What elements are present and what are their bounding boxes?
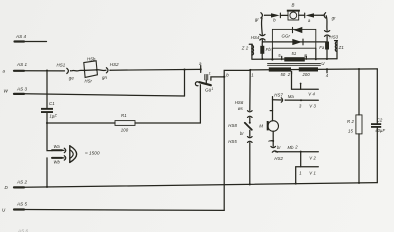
value 1500 (horn winding) xyxy=(85,150,100,155)
value 1uF xyxy=(50,113,58,118)
junction row at Fa column xyxy=(326,68,328,70)
label ge xyxy=(69,75,75,80)
label HS7 xyxy=(274,92,283,97)
svg-text:Fb: Fb xyxy=(266,47,272,52)
label Z1 xyxy=(338,45,345,50)
wire V1 line xyxy=(296,167,319,184)
connector block HSb/HSr (parallelogram) xyxy=(84,61,98,78)
switch GU fixed block xyxy=(204,74,208,80)
junction W riser on AS1 xyxy=(183,69,185,71)
connector arc top left xyxy=(261,13,265,18)
label HSr xyxy=(85,79,93,84)
svg-text:a: a xyxy=(308,18,311,23)
svg-text:1: 1 xyxy=(299,170,301,175)
label HS3 xyxy=(330,34,339,39)
label a (below M) xyxy=(268,138,271,143)
label HSb xyxy=(87,56,96,61)
svg-text:V 3: V 3 xyxy=(309,104,316,109)
label C1 xyxy=(49,101,55,106)
wire left charge column (wavy) xyxy=(261,40,264,59)
wire HS5 down to AS2 xyxy=(249,143,251,185)
junction on V2 line xyxy=(300,151,302,153)
label M xyxy=(259,123,263,128)
value 15 xyxy=(348,129,353,134)
label br (column) xyxy=(240,131,244,136)
node a (left terminal letter) xyxy=(3,69,6,74)
wire tap2 to V4 line xyxy=(292,71,319,89)
label R1 xyxy=(121,113,127,118)
svg-text:br: br xyxy=(277,145,281,150)
wire right charge column top xyxy=(325,16,328,31)
junction Fb column on row 51 xyxy=(261,58,263,60)
switch arm GU xyxy=(199,82,211,85)
label V4 xyxy=(308,91,315,96)
svg-text:HS7: HS7 xyxy=(274,92,283,97)
svg-text:HS1: HS1 xyxy=(57,62,66,67)
junction HS column on AS2 xyxy=(249,183,251,185)
label HS2 xyxy=(110,62,119,67)
wire AS3/W horizontal xyxy=(14,94,185,96)
svg-text:gr: gr xyxy=(332,15,336,20)
connector HS6 xyxy=(248,111,253,118)
motor/horn M xyxy=(267,121,279,132)
svg-text:R1: R1 xyxy=(121,113,127,118)
svg-text:HS8: HS8 xyxy=(228,123,237,128)
svg-text:2: 2 xyxy=(294,145,298,150)
node a tick and label at GU switch xyxy=(200,66,202,70)
capacitor C2 xyxy=(371,123,381,128)
svg-text:AS 3: AS 3 xyxy=(16,87,28,92)
svg-text:15: 15 xyxy=(348,129,353,134)
svg-text:HS6: HS6 xyxy=(235,100,244,105)
label Fb xyxy=(266,47,272,52)
diode D2 (mid, right-pointing) xyxy=(292,39,303,45)
node W (left terminal letter) xyxy=(4,89,9,94)
label 2 (tap) xyxy=(287,72,291,77)
switch HS8 (horn button) xyxy=(245,122,252,130)
svg-text:2: 2 xyxy=(287,72,291,77)
winding 50 xyxy=(269,67,291,71)
pin tick below GU block xyxy=(205,80,207,82)
svg-text:W: W xyxy=(4,89,9,94)
svg-text:Z1: Z1 xyxy=(338,45,345,50)
wire C2 upper xyxy=(376,69,378,123)
label Ma xyxy=(288,94,295,99)
svg-text:HS3: HS3 xyxy=(330,34,339,39)
svg-text:100: 100 xyxy=(121,127,129,132)
junction V column on AS2 xyxy=(295,183,297,185)
wire C1 to R1 junction xyxy=(46,113,48,123)
wire diode a to right arc xyxy=(314,14,324,16)
label V3 xyxy=(309,104,316,109)
winding 51 xyxy=(284,57,305,61)
svg-text:ge: ge xyxy=(69,75,75,80)
junction on plug right edge xyxy=(96,69,98,71)
svg-text:HS4: HS4 xyxy=(251,35,260,40)
label Wb xyxy=(54,160,61,165)
horn (speaker) body xyxy=(70,146,77,163)
svg-text:Mb: Mb xyxy=(288,145,295,150)
svg-text:HSr: HSr xyxy=(85,79,93,84)
label 1 xyxy=(299,170,301,175)
horn lead Wb xyxy=(52,157,64,159)
rectifier GGr box xyxy=(272,29,315,48)
junction node b xyxy=(223,76,225,78)
label Wa xyxy=(54,144,61,149)
label U xyxy=(321,61,325,66)
svg-text:Gü1: Gü1 xyxy=(205,87,213,93)
wire HS2 to node a xyxy=(111,68,201,71)
label V2 xyxy=(309,156,316,161)
terminal AS4 label xyxy=(15,34,27,39)
wire W riser to AS1 xyxy=(184,70,186,97)
junction HS column top xyxy=(249,69,251,71)
connector arc top right xyxy=(321,13,325,18)
label GGr xyxy=(282,34,291,39)
resistor R2 xyxy=(356,115,362,134)
diode D1 (top edge, left-pointing) xyxy=(293,27,303,33)
diode b (right-pointing) xyxy=(271,13,280,18)
svg-text:U: U xyxy=(321,61,325,66)
svg-text:C1: C1 xyxy=(49,101,55,106)
svg-text:50: 50 xyxy=(281,72,286,77)
svg-text:V 4: V 4 xyxy=(308,91,315,96)
label b (diode) xyxy=(273,18,276,23)
wire rectifier mid line xyxy=(262,41,327,43)
label HS1 xyxy=(57,62,66,67)
wire R2 upper xyxy=(358,69,360,115)
wire box right leg to row 51 xyxy=(315,48,317,59)
wire HS7 line xyxy=(273,99,319,102)
wire AS2 main horizontal xyxy=(14,183,377,188)
svg-text:gr: gr xyxy=(255,17,259,22)
wire M column upper xyxy=(272,100,274,121)
label 6 xyxy=(326,73,329,78)
svg-text:Wb: Wb xyxy=(54,160,61,165)
label 1 (tap) xyxy=(251,73,253,78)
connector arc horn upper xyxy=(64,148,66,152)
label V1 xyxy=(309,170,316,175)
value 40uF xyxy=(375,128,385,133)
connector HS3 xyxy=(325,31,330,37)
svg-text:Z 2: Z 2 xyxy=(241,46,249,51)
svg-text:1µF: 1µF xyxy=(50,113,58,118)
svg-text:1: 1 xyxy=(209,71,211,75)
terminal AS6 label (clipped at bottom) xyxy=(17,229,29,234)
junction on HS7 line xyxy=(300,99,302,101)
svg-text:HS2: HS2 xyxy=(110,62,119,67)
wire horn return to AS2 xyxy=(46,158,48,187)
wire HS column (switch column) xyxy=(249,70,251,111)
label HS2 (lower connector) xyxy=(274,156,283,161)
junction on plug left edge xyxy=(83,69,85,71)
tap 8 tick xyxy=(305,56,307,59)
label ws xyxy=(238,106,244,111)
svg-text:AS 4: AS 4 xyxy=(15,34,27,39)
svg-text:AS 1: AS 1 xyxy=(16,62,28,67)
terminal AS4 stub xyxy=(15,40,47,42)
label HS6 xyxy=(235,100,244,105)
label 200 xyxy=(302,72,311,77)
wire C2 lower xyxy=(376,128,378,183)
label HS4 xyxy=(251,35,260,40)
lamp B (charge indicator) xyxy=(287,10,300,20)
svg-text:gn: gn xyxy=(102,75,108,80)
label HS8 xyxy=(228,123,237,128)
horn lead Wa xyxy=(52,149,64,151)
label Fa xyxy=(319,45,325,50)
wire plug to HS2 (wavy) xyxy=(97,69,106,72)
svg-text:C2: C2 xyxy=(377,118,383,123)
wire diode b to lamp xyxy=(280,14,288,16)
junction node a xyxy=(200,68,202,70)
svg-text:4: 4 xyxy=(326,73,329,78)
wire R1 line left segment xyxy=(47,122,115,124)
tick a on M column xyxy=(270,110,272,112)
label R2 xyxy=(347,119,354,124)
svg-text:V 2: V 2 xyxy=(309,156,316,161)
wire generator row (50/200) xyxy=(250,69,377,70)
svg-text:br: br xyxy=(240,131,244,136)
svg-text:HS5: HS5 xyxy=(228,139,237,144)
connector HS2 xyxy=(106,68,110,73)
svg-text:B: B xyxy=(292,3,295,8)
wire C1 column upper xyxy=(46,71,48,108)
tap 5 tick xyxy=(281,56,283,59)
svg-text:a: a xyxy=(199,61,202,66)
value 100 xyxy=(121,127,129,132)
label GU1 xyxy=(205,87,213,93)
svg-text:HSb: HSb xyxy=(87,56,96,61)
wire ignition row 51 xyxy=(252,58,337,61)
svg-text:HS2: HS2 xyxy=(274,156,283,161)
svg-text:Fa: Fa xyxy=(319,45,325,50)
svg-text:R 2: R 2 xyxy=(347,119,354,124)
wire node b riser to winding row xyxy=(224,70,250,76)
svg-text:ws: ws xyxy=(238,106,244,111)
svg-text:V 1: V 1 xyxy=(309,170,316,175)
wire V2 junction down to V1 line xyxy=(300,152,302,167)
connector arc horn lower xyxy=(64,156,66,160)
svg-text:5: 5 xyxy=(278,53,281,58)
ignition coil Z1 xyxy=(335,41,338,59)
tap 6 tick xyxy=(326,69,328,73)
label 51 xyxy=(292,51,297,56)
junction box left leg xyxy=(271,59,273,61)
wire GU arm to node b xyxy=(211,77,223,80)
winding 200 xyxy=(299,67,318,71)
wire HS8 to HS5 xyxy=(249,130,251,136)
svg-text:GGr: GGr xyxy=(282,34,291,39)
svg-text:200: 200 xyxy=(302,72,311,77)
wire HS6 to HS8 xyxy=(249,118,251,123)
svg-text:AS 6: AS 6 xyxy=(17,229,29,233)
wire right column mid xyxy=(326,36,328,41)
wire AS1 main horizontal xyxy=(14,70,65,72)
svg-text:M: M xyxy=(259,123,263,128)
svg-text:Ma: Ma xyxy=(288,94,295,99)
connector HS5 xyxy=(248,137,253,143)
connector br (M lead) xyxy=(271,146,277,152)
core lines U xyxy=(268,63,321,65)
connector HS4 xyxy=(260,34,265,40)
label a (diode) xyxy=(308,18,311,23)
wire HS1 to plug (wavy) xyxy=(72,69,85,72)
wire R2 lower xyxy=(358,134,360,183)
resistor R2 branch from row xyxy=(358,68,360,70)
capacitor C1 xyxy=(41,108,53,113)
terminal AS2 label xyxy=(16,180,28,185)
terminal AS3 label xyxy=(16,87,28,92)
label Z2 xyxy=(241,46,249,51)
tap 2 tick xyxy=(291,71,293,74)
svg-text:b: b xyxy=(273,18,276,23)
label b xyxy=(226,72,229,77)
fuse Fb xyxy=(260,46,264,54)
junction R1 branch xyxy=(46,122,48,124)
pin 1 of GU xyxy=(209,71,211,75)
wire AS5 horizontal xyxy=(14,208,224,211)
connector HS7 xyxy=(281,98,286,102)
node D (left terminal letter) xyxy=(5,185,9,190)
tick with dot on V4 line xyxy=(300,83,302,90)
wire arc to diode b xyxy=(265,14,271,16)
svg-text:b: b xyxy=(226,72,229,77)
ignition coil Z2 xyxy=(249,44,253,59)
node U (left terminal letter) xyxy=(2,208,6,213)
label gn xyxy=(102,75,108,80)
diode a (left-pointing) xyxy=(305,13,314,18)
tick terminal at HS7 line left end xyxy=(272,97,274,100)
label 5 xyxy=(278,53,281,58)
label 8 xyxy=(304,53,307,58)
terminal AS1 label xyxy=(16,62,28,67)
resistor R1 xyxy=(115,121,135,126)
svg-text:3: 3 xyxy=(299,104,302,109)
wire C1 column to horn xyxy=(47,123,52,151)
svg-text:AS 2: AS 2 xyxy=(16,180,28,185)
label gr left xyxy=(255,17,259,22)
junction box right leg xyxy=(315,58,317,60)
wire Mb to V2 line xyxy=(276,151,319,153)
wire through plug xyxy=(84,69,96,72)
label 50 xyxy=(281,72,286,77)
svg-text:U: U xyxy=(2,208,6,213)
fuse Fa xyxy=(325,42,329,50)
svg-text:a: a xyxy=(3,69,6,74)
junction R2 on AS2 xyxy=(358,182,360,184)
wire node b down column xyxy=(223,77,225,211)
label 2 (Mb line) xyxy=(294,145,298,150)
wire M column lower xyxy=(272,131,274,146)
svg-text:1: 1 xyxy=(251,73,253,78)
junction C1 column on AS1 xyxy=(46,70,48,72)
tick a below M xyxy=(271,140,274,142)
svg-text:AS 5: AS 5 xyxy=(16,202,28,207)
svg-text:≈ 1500: ≈ 1500 xyxy=(85,150,100,155)
svg-text:D: D xyxy=(5,185,9,190)
contact arc GU xyxy=(195,82,198,86)
wire left column top to lamp arc xyxy=(261,18,264,34)
label 3 xyxy=(299,104,302,109)
label C2 xyxy=(377,118,383,123)
label Mb xyxy=(288,145,295,150)
label br (M lead) xyxy=(277,145,281,150)
junction horn column on AS2 xyxy=(46,186,48,188)
junction right column on row 51 xyxy=(326,58,328,60)
connector HS1 xyxy=(67,68,72,73)
label B xyxy=(292,3,295,8)
terminal AS5 label xyxy=(16,202,28,207)
label gr right xyxy=(332,15,336,20)
wire right column to row 51 xyxy=(326,50,328,60)
label HS5 xyxy=(228,139,237,144)
svg-text:51: 51 xyxy=(292,51,297,56)
wire node a stub down xyxy=(200,69,202,72)
wire box left leg to row 51 xyxy=(271,48,273,60)
svg-text:Wa: Wa xyxy=(54,144,61,149)
wire R1 line right segment to GU riser xyxy=(135,85,200,123)
wire lamp to diode a xyxy=(299,14,305,16)
